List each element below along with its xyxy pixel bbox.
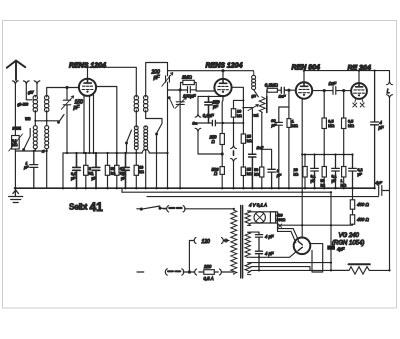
transformer secondary S2 <box>245 232 251 257</box>
svg-text:µF: µF <box>71 177 76 181</box>
svg-text:0,5: 0,5 <box>348 120 353 124</box>
mains connector bottom <box>137 269 193 275</box>
wire tube3 to coupling cap <box>312 90 332 92</box>
resistor 15k a <box>241 134 245 143</box>
row2 rail wire <box>302 154 352 156</box>
svg-text:4 µF: 4 µF <box>265 234 274 239</box>
svg-text:w1: w1 <box>254 113 259 118</box>
resistor 500ohm <box>220 167 224 175</box>
svg-text:kΩ: kΩ <box>321 184 326 188</box>
svg-text:1: 1 <box>292 120 294 124</box>
svg-text:VG 240: VG 240 <box>339 233 360 239</box>
svg-text:kΩ: kΩ <box>247 139 252 143</box>
HV wire to caps <box>251 232 297 257</box>
speaker jack L <box>387 81 393 84</box>
capacitor 0.2uF row2 <box>349 155 357 189</box>
resistor 0.1M row1 <box>115 165 119 175</box>
tube U4 RE304 <box>351 83 367 99</box>
coil L2b <box>45 126 49 130</box>
wire grid node tube3 <box>289 90 296 107</box>
switch S1 <box>24 129 30 150</box>
svg-text:µF: µF <box>379 125 384 130</box>
ground bus wire <box>15 187 375 189</box>
svg-text:MΩ: MΩ <box>341 184 347 188</box>
coil L1b <box>45 96 49 100</box>
svg-text:50: 50 <box>321 179 325 183</box>
wire to tube2 grid <box>196 90 214 92</box>
resistor 2M <box>183 80 195 84</box>
capacitor 1uF mid <box>268 169 275 188</box>
svg-text:400: 400 <box>277 214 283 218</box>
wire T2 sec top to tuning rail <box>146 63 168 96</box>
lamp resistor <box>270 212 275 223</box>
wire socket2 down <box>26 84 32 100</box>
svg-text:120: 120 <box>202 239 211 245</box>
svg-text:kΩ: kΩ <box>294 173 299 177</box>
wire hop bridge <box>142 150 149 154</box>
resistor 50k row2 <box>322 167 326 178</box>
wire varcap to RC <box>168 82 188 90</box>
svg-text:µF: µF <box>358 173 363 177</box>
rectifier output loop <box>310 244 323 272</box>
capacitor 0.1uF row2 <box>311 155 319 189</box>
wire tube1 plate top to IF transformer <box>88 67 137 95</box>
svg-text:Seibt: Seibt <box>69 203 88 212</box>
svg-text:20: 20 <box>294 168 298 172</box>
IF transformer T2 primary <box>134 96 138 100</box>
svg-text:0,1: 0,1 <box>121 172 126 176</box>
resistor R antenna 0.1M <box>12 136 20 150</box>
svg-text:µF: µF <box>213 104 218 109</box>
resistor 250ohm <box>220 134 224 145</box>
svg-text:41: 41 <box>90 200 104 214</box>
wire coil L1 bottoms <box>35 112 58 121</box>
variable capacitor C3 <box>176 90 184 188</box>
capacitor 4uF rect <box>330 192 332 270</box>
wire pot wiper to resistor <box>266 90 268 97</box>
transformer secondary S3 <box>245 263 251 275</box>
band switch <box>59 115 65 123</box>
variable capacitor C2 200pF <box>166 71 170 90</box>
wire drop left of row <box>62 153 64 188</box>
capacitor 100pF <box>188 87 197 93</box>
svg-text:15: 15 <box>247 168 251 172</box>
svg-text:µF: µF <box>154 75 161 81</box>
svg-text:220: 220 <box>203 264 212 269</box>
svg-text:gb-W3: gb-W3 <box>18 103 29 107</box>
coil L2a <box>33 126 37 130</box>
potentiometer zigzag <box>259 97 265 113</box>
svg-text:kΩ: kΩ <box>237 114 242 118</box>
transformer core <box>241 206 243 279</box>
wire tube4 plate <box>358 71 360 84</box>
wire tube1 anode right <box>97 87 117 166</box>
wire tube1 cathode drops <box>84 95 94 154</box>
capacitor 0.1uF tube2 <box>198 120 234 125</box>
wire tube2 cathode <box>221 96 224 133</box>
capacitor 1nF out <box>333 87 351 95</box>
wire 400 chain <box>278 188 353 225</box>
voltage selector wire <box>189 241 193 273</box>
switch S3 <box>146 119 162 189</box>
variable capacitor C1 150pF <box>63 88 71 154</box>
resistor 400 b <box>350 215 354 224</box>
wire branch 1uF <box>262 149 272 168</box>
svg-text:4 V 0,1 A: 4 V 0,1 A <box>249 203 267 208</box>
svg-text:4 µF: 4 µF <box>265 251 274 256</box>
svg-text:pF: pF <box>271 123 277 128</box>
resistor 10k row1 inline <box>134 165 138 175</box>
IF transformer T2 secondary <box>144 96 148 100</box>
svg-text:400 Ω: 400 Ω <box>357 217 370 222</box>
svg-text:400 Ω: 400 Ω <box>357 202 370 207</box>
wave switch blade <box>169 98 174 108</box>
antenna jack sockets <box>13 81 19 84</box>
tap 120 <box>194 238 196 244</box>
svg-text:1: 1 <box>341 179 343 183</box>
heater rail wire 2 <box>147 196 379 198</box>
svg-text:gn: gn <box>252 93 257 98</box>
svg-text:5: 5 <box>89 167 91 171</box>
resistor 10k screen <box>231 109 236 117</box>
coil L1a <box>33 96 37 100</box>
svg-text:µF: µF <box>24 166 29 170</box>
resistor 50k row1 <box>105 165 109 175</box>
rectifier filament wires <box>278 229 299 243</box>
svg-text:10: 10 <box>237 110 241 114</box>
heater rail wire 1 <box>122 191 331 193</box>
component top rail wire <box>63 90 168 188</box>
capacitor C 1uF <box>30 151 38 188</box>
resistor 0.5M b <box>342 118 346 129</box>
tube U2 RENS1204 <box>214 79 231 96</box>
capacitor 1nF coupling <box>281 87 289 93</box>
svg-text:0,5 A: 0,5 A <box>204 276 214 281</box>
wire arrow feed <box>243 108 252 154</box>
svg-text:Ω: Ω <box>212 139 216 144</box>
x mark <box>278 224 281 227</box>
HV capacitors 4uF <box>255 232 262 270</box>
svg-text:10: 10 <box>139 166 143 170</box>
filament lines LV <box>251 263 349 271</box>
tube U3 REN804 <box>296 82 312 98</box>
anode rail wire tube2 <box>168 70 254 72</box>
resistor 0.2M <box>267 88 277 92</box>
wire screen feed <box>232 87 244 134</box>
resistor 20k <box>303 167 307 178</box>
capacitor 250pF <box>205 96 212 123</box>
capacitor 4uF right <box>371 71 379 189</box>
svg-text:4µF: 4µF <box>337 247 345 252</box>
svg-text:1nF: 1nF <box>279 94 286 99</box>
wire coil bottoms to bottom node <box>15 149 46 189</box>
resistor 50k pot <box>260 167 264 177</box>
antenna lead wire <box>14 84 16 188</box>
phono jack Sa <box>195 96 201 117</box>
svg-text:4µF: 4µF <box>376 181 383 185</box>
wire grid line tube1 <box>47 88 79 96</box>
IF transformer T2 lower primary <box>134 126 138 130</box>
jack B+ <box>231 123 237 149</box>
resistor 1M row2 <box>342 167 346 178</box>
svg-text:MΩ: MΩ <box>328 124 334 128</box>
power transformer primary <box>231 209 237 275</box>
svg-text:0,1: 0,1 <box>332 175 337 179</box>
resistor 15k b <box>241 167 245 176</box>
svg-text:kΩ: kΩ <box>247 172 252 176</box>
dial lamp <box>254 212 265 223</box>
svg-text:0,2: 0,2 <box>358 168 363 172</box>
antenna <box>7 61 26 80</box>
svg-text:2MΩ: 2MΩ <box>181 75 192 80</box>
svg-text:kΩ: kΩ <box>139 170 144 174</box>
svg-text:50: 50 <box>254 168 258 172</box>
svg-text:0,1: 0,1 <box>71 172 76 176</box>
svg-text:0,5: 0,5 <box>328 120 333 124</box>
svg-text:MΩ: MΩ <box>348 124 354 128</box>
svg-text:MΩ: MΩ <box>292 124 298 128</box>
capacitor 60pF <box>275 107 289 188</box>
svg-text:0,2MΩ: 0,2MΩ <box>265 83 279 88</box>
capacitor 1uF row1 <box>92 153 100 188</box>
svg-text:300Ω: 300Ω <box>277 218 286 222</box>
mains switch <box>137 206 166 209</box>
svg-text:gW: gW <box>28 91 34 95</box>
pot arrow <box>248 105 258 111</box>
tube U1 RENS1204 <box>79 79 96 96</box>
svg-text:L: L <box>387 89 390 95</box>
resistor 1M <box>288 107 290 119</box>
mains connector top <box>163 206 234 212</box>
svg-text:Sa: Sa <box>192 121 198 126</box>
tube4 filament legs <box>355 99 363 103</box>
rectifier tube VG240 <box>294 238 311 255</box>
dial lamp circuit wires <box>251 212 278 232</box>
svg-text:1nF: 1nF <box>329 81 337 86</box>
svg-text:0,1µF: 0,1µF <box>203 113 214 118</box>
svg-text:W2: W2 <box>25 117 30 121</box>
hum resistor zigzag <box>331 267 390 274</box>
svg-text:1: 1 <box>92 172 94 176</box>
transformer secondary S1 <box>245 211 251 226</box>
capacitor 0.1uF b row1 <box>122 153 130 188</box>
resistor 400 a <box>350 200 354 209</box>
ground symbol <box>9 188 23 202</box>
capacitor 0.1uF row1 <box>73 153 81 188</box>
anode rail wire right <box>304 71 390 83</box>
svg-text:pF: pF <box>73 105 81 111</box>
capacitor 4uF bus <box>379 186 390 196</box>
svg-text:MΩ: MΩ <box>12 143 18 147</box>
switch S2 <box>127 130 132 153</box>
choke coil <box>252 71 255 76</box>
svg-text:ff-W1: ff-W1 <box>13 127 22 131</box>
svg-text:15: 15 <box>247 135 251 139</box>
capacitor 0.1uF row2 b <box>332 155 340 189</box>
wire tube3 cathode drop <box>301 99 303 238</box>
svg-text:0,1: 0,1 <box>311 175 316 179</box>
resistor 5k row1 <box>84 165 88 175</box>
fuse 220 0.5A <box>193 269 204 275</box>
wire socket3 down <box>36 84 38 96</box>
capacitor 1nF shunt <box>249 154 256 188</box>
wire tube2 plate <box>222 71 224 79</box>
svg-text:RENS 1204: RENS 1204 <box>206 63 243 70</box>
resistor 0.5M a <box>322 118 326 129</box>
wires T2 <box>136 110 145 188</box>
svg-text:kΩ: kΩ <box>254 173 259 177</box>
IF transformer T2 lower secondary <box>144 126 148 130</box>
wire pot bottom <box>261 112 263 167</box>
